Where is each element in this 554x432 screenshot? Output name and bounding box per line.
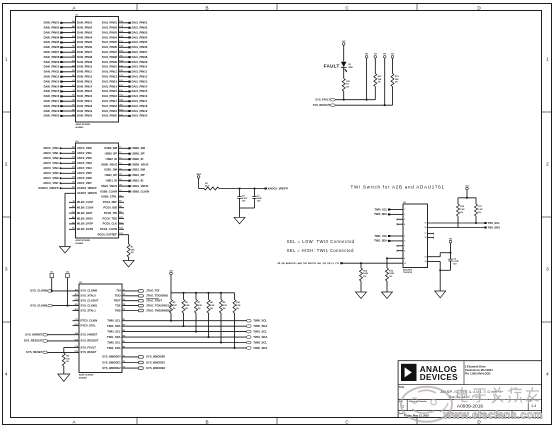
wire TWI2_SDA (U3 pin R6) bbox=[107, 346, 267, 350]
svg-text:USB1_DM: USB1_DM bbox=[132, 168, 146, 172]
ground U2 analog bbox=[60, 247, 71, 254]
svg-text:2: 2 bbox=[5, 162, 8, 167]
svg-text:DAI0_PIN01: DAI0_PIN01 bbox=[44, 21, 60, 25]
power flag 3V3 U5 VDD bbox=[449, 238, 452, 259]
svg-text:R13: R13 bbox=[119, 233, 122, 235]
svg-text:5%: 5% bbox=[131, 252, 134, 254]
svg-text:SYS_RESET: SYS_RESET bbox=[26, 350, 43, 354]
svg-text:DAI1_PIN14: DAI1_PIN14 bbox=[102, 84, 118, 88]
power flag TP header B bbox=[383, 54, 386, 59]
svg-text:SYS_BMODE1: SYS_BMODE1 bbox=[146, 360, 166, 364]
IC U1 ADSP-SC589 DAI0/DAI1 pins bbox=[76, 17, 119, 123]
svg-text:2.2K: 2.2K bbox=[223, 305, 228, 307]
resistor R9 2.2K pull-up bbox=[220, 293, 228, 313]
svg-text:5%: 5% bbox=[198, 308, 201, 310]
wire DAI1_PIN09 (U1 pin K14) bbox=[102, 59, 148, 63]
svg-text:1: 1 bbox=[5, 57, 8, 62]
svg-text:PCG0_TDO: PCG0_TDO bbox=[103, 216, 118, 220]
svg-text:XADC0_VREFP: XADC0_VREFP bbox=[77, 186, 97, 190]
wire PCG0_CLK (U2 pin R11) bbox=[103, 222, 124, 226]
svg-text:D15: D15 bbox=[119, 80, 122, 82]
svg-text:JTAG_TMS/SWDIO: JTAG_TMS/SWDIO bbox=[146, 308, 172, 312]
svg-text:DAI0_PIN17: DAI0_PIN17 bbox=[44, 99, 60, 103]
wire PCG0_IOB (U2 pin R8) bbox=[103, 206, 124, 210]
power flag 3V3 TWI pull-ups bbox=[465, 185, 468, 198]
svg-text:TDI: TDI bbox=[116, 289, 121, 293]
svg-text:TWI1_SCL: TWI1_SCL bbox=[253, 329, 267, 333]
svg-text:TMS: TMS bbox=[115, 308, 121, 312]
svg-text:5%: 5% bbox=[346, 86, 349, 88]
svg-text:N5: N5 bbox=[72, 70, 74, 72]
ground R15 bbox=[382, 292, 393, 299]
svg-text:SYS_CLKIN0: SYS_CLKIN0 bbox=[81, 289, 98, 293]
svg-text:USB0_CLKIN: USB0_CLKIN bbox=[132, 189, 150, 193]
svg-text:MLB0_DATN: MLB0_DATN bbox=[77, 227, 93, 231]
wire TWI_SDA output bbox=[425, 225, 501, 229]
svg-text:1: 1 bbox=[404, 209, 405, 211]
resistor R11 1K LED bbox=[342, 79, 351, 92]
wire MLB0_CLKN (U2 pin K6) bbox=[69, 206, 93, 210]
svg-text:FAULT: FAULT bbox=[324, 64, 340, 69]
svg-text:MLB0_CLKP: MLB0_CLKP bbox=[77, 200, 93, 204]
wire RTC0_CLKIN (U3 pin C13) bbox=[73, 319, 98, 323]
svg-text:TWI1_SCL: TWI1_SCL bbox=[107, 329, 121, 333]
svg-text:DAI0_PIN05: DAI0_PIN05 bbox=[44, 40, 60, 44]
svg-text:5%: 5% bbox=[66, 361, 69, 363]
svg-text:JTAG_TDO/SWO: JTAG_TDO/SWO bbox=[146, 294, 169, 298]
svg-text:U1: U1 bbox=[119, 168, 121, 170]
svg-text:TWI1_SDA: TWI1_SDA bbox=[107, 335, 121, 339]
svg-text:TCK: TCK bbox=[115, 303, 121, 307]
LED D1 FAULT bbox=[341, 62, 353, 73]
svg-text:5%: 5% bbox=[395, 82, 398, 84]
svg-text:DAI1_PIN14: DAI1_PIN14 bbox=[132, 84, 148, 88]
wire TWI1_SDA to U5 (pin 6) bbox=[374, 239, 405, 243]
wire TWI_SCL output bbox=[425, 221, 501, 225]
svg-text:DAI0_PIN07: DAI0_PIN07 bbox=[44, 50, 60, 54]
svg-text:5%: 5% bbox=[223, 308, 226, 310]
wire R8 to TWI1_SDA bbox=[208, 313, 210, 337]
wire TWI1_SCL to U5 (pin 5) bbox=[374, 234, 405, 238]
wire SYS_CLKIN1 (U3 pin A12) bbox=[30, 303, 97, 307]
wire DAI1_PIN16 (U1 pin G15) bbox=[102, 94, 148, 98]
svg-text:B15: B15 bbox=[119, 70, 122, 72]
wire R11 to SYS_FAULT line bbox=[343, 91, 345, 101]
svg-text:T1: T1 bbox=[123, 355, 125, 357]
svg-text:TRST: TRST bbox=[114, 299, 121, 303]
resistor R17 2.2K TWI_SDA pull-up bbox=[475, 198, 484, 223]
svg-text:DAI1_PIN03: DAI1_PIN03 bbox=[102, 30, 118, 34]
wire DAI1_PIN06 (U1 pin G14) bbox=[102, 45, 148, 49]
resistor R4 10K pulldown SYS_FAULT bbox=[62, 353, 70, 366]
U1 part name label bbox=[76, 123, 90, 129]
wire DAI1_PIN01 (U1 pin B14) bbox=[102, 20, 148, 24]
wire DAI0_PIN12 (U1 pin M5) bbox=[44, 75, 93, 79]
svg-text:DAI1_PIN01: DAI1_PIN01 bbox=[132, 21, 148, 25]
svg-text:T3: T3 bbox=[119, 158, 121, 160]
zone letters top bbox=[72, 5, 481, 10]
Analog Devices logo bbox=[401, 364, 417, 381]
svg-text:J6: J6 bbox=[72, 201, 74, 203]
svg-text:USB1_VBUS: USB1_VBUS bbox=[132, 184, 149, 188]
wire DAI1_PIN18 (U1 pin J15) bbox=[102, 104, 148, 108]
title text bbox=[440, 389, 502, 399]
wire TWI1_SDA (U3 pin R4) bbox=[107, 334, 267, 338]
wire U5 no-connect right 2 bbox=[425, 237, 434, 240]
resistor R14 100K pulldown bbox=[360, 263, 369, 292]
svg-text:DAI1_PIN07: DAI1_PIN07 bbox=[102, 50, 118, 54]
wire DAI0_PIN06 (U1 pin H4) bbox=[44, 45, 93, 49]
svg-text:DAI0_PIN08: DAI0_PIN08 bbox=[77, 55, 93, 59]
wire DAI0_PIN14 (U1 pin K5) bbox=[44, 84, 93, 88]
svg-text:DAI1_PIN12: DAI1_PIN12 bbox=[132, 75, 148, 79]
svg-text:DAI0_PIN20: DAI0_PIN20 bbox=[44, 114, 60, 118]
svg-text:SYS_CLKIN0: SYS_CLKIN0 bbox=[30, 289, 48, 293]
svg-text:2.2K: 2.2K bbox=[210, 305, 215, 307]
svg-text:SYS_BMODE2: SYS_BMODE2 bbox=[102, 366, 121, 370]
wire MLB0_CLKP (U2 pin J6) bbox=[69, 200, 93, 204]
svg-text:H15: H15 bbox=[119, 100, 122, 102]
wire R6 to TWI0_SDA bbox=[183, 313, 185, 326]
wire USB1_ID (U2 pin U3) bbox=[106, 179, 144, 183]
wire pull-up rail bbox=[171, 292, 235, 294]
svg-text:P5: P5 bbox=[123, 309, 125, 311]
wire TWI1_SCL (U3 pin R3) bbox=[107, 329, 267, 333]
svg-text:ADC0_VIN4: ADC0_VIN4 bbox=[43, 166, 59, 170]
svg-text:DAI0_PIN13: DAI0_PIN13 bbox=[44, 79, 60, 83]
component Y1 load cap bbox=[50, 272, 54, 278]
wire R9 to TWI2_SCL bbox=[220, 313, 222, 343]
svg-text:DAI1_PIN08: DAI1_PIN08 bbox=[132, 55, 148, 59]
svg-text:BGA400: BGA400 bbox=[76, 242, 85, 245]
wire USB1_DP (U2 pin U2) bbox=[105, 173, 145, 177]
svg-text:5%: 5% bbox=[389, 276, 392, 278]
svg-text:PCG0_CLK: PCG0_CLK bbox=[103, 222, 117, 226]
size cell bbox=[399, 401, 405, 409]
U5 part name label bbox=[403, 268, 413, 274]
svg-text:DAI0_PIN18: DAI0_PIN18 bbox=[77, 104, 93, 108]
svg-text:U2: U2 bbox=[119, 174, 121, 176]
svg-text:5%: 5% bbox=[236, 308, 239, 310]
svg-text:USB0_VBUS: USB0_VBUS bbox=[101, 162, 117, 166]
svg-text:ADSP-SC589W: ADSP-SC589W bbox=[79, 374, 93, 377]
svg-text:R9: R9 bbox=[119, 212, 121, 214]
svg-text:3: 3 bbox=[5, 267, 8, 272]
resistor R13 10K bbox=[391, 58, 399, 105]
svg-text:B: B bbox=[205, 420, 208, 425]
svg-text:H5: H5 bbox=[72, 95, 74, 97]
svg-text:5%: 5% bbox=[478, 212, 481, 214]
svg-text:R8: R8 bbox=[119, 206, 121, 208]
svg-text:TWI1_SCL: TWI1_SCL bbox=[374, 234, 387, 238]
svg-text:J15: J15 bbox=[119, 105, 122, 107]
wire USB0_ID (U2 pin T3) bbox=[106, 157, 144, 161]
svg-text:14: 14 bbox=[425, 260, 427, 263]
wire USB0_CTRL (U2 pin U5) bbox=[101, 195, 124, 199]
svg-text:DAI1_PIN04: DAI1_PIN04 bbox=[102, 35, 118, 39]
svg-text:USB1_DM: USB1_DM bbox=[104, 168, 118, 172]
wire MLB0_SIGN (U2 pin M6) bbox=[69, 216, 92, 220]
wire DAI1_PIN20 (U1 pin L15) bbox=[102, 114, 148, 118]
wire U5 NC4 no-connect (pin 8) bbox=[397, 250, 405, 253]
svg-text:ADC0_VIN1: ADC0_VIN1 bbox=[43, 151, 59, 155]
wire SYS_FAULT (U3 pin C14) bbox=[64, 345, 96, 353]
svg-text:USB0_VBUS: USB0_VBUS bbox=[132, 162, 149, 166]
wire ADC0_VIN1 (U2 pin B4) bbox=[43, 151, 92, 155]
svg-text:TWI0_SDA: TWI0_SDA bbox=[253, 324, 267, 328]
svg-text:SEL = LOW: TWI0 Connected: SEL = LOW: TWI0 Connected bbox=[287, 239, 355, 244]
svg-text:C13: C13 bbox=[75, 319, 78, 321]
wire DAI1_PIN14 (U1 pin E15) bbox=[102, 84, 148, 88]
wire JTAG_TDO/SWO (U3 pin P2) bbox=[115, 294, 169, 298]
wire DAI0_PIN04 (U1 pin K4) bbox=[44, 35, 93, 39]
wire D1 to R10 bbox=[343, 67, 345, 78]
svg-text:DAI0_PIN02: DAI0_PIN02 bbox=[77, 26, 93, 30]
zone letters bottom bbox=[72, 420, 481, 425]
wire DAI0_PIN05 (U1 pin J4) bbox=[44, 40, 93, 44]
svg-text:JTAG_TRST: JTAG_TRST bbox=[146, 299, 162, 303]
wire TP2 to SYS_FAULT line bbox=[366, 58, 368, 100]
wire DAI1_PIN07 (U1 pin H14) bbox=[102, 50, 148, 54]
svg-text:DAI1_PIN11: DAI1_PIN11 bbox=[102, 70, 117, 74]
svg-text:B11: B11 bbox=[75, 294, 78, 296]
svg-text:PCG0_TDI: PCG0_TDI bbox=[104, 211, 117, 215]
svg-text:ADC0_VIN7: ADC0_VIN7 bbox=[43, 181, 59, 185]
IC U2 ADSP-SC589 ADC/USB pins bbox=[76, 143, 119, 238]
svg-text:DAI0_PIN15: DAI0_PIN15 bbox=[77, 89, 93, 93]
svg-text:5%: 5% bbox=[185, 308, 188, 310]
svg-text:15: 15 bbox=[425, 256, 427, 258]
wire SYS_BMODE2 (U3 pin T3) bbox=[102, 366, 165, 370]
wire SYS_RESOUT (U3 pin B14) bbox=[24, 338, 99, 342]
svg-text:DAI0_PIN13: DAI0_PIN13 bbox=[77, 79, 93, 83]
svg-text:D5: D5 bbox=[72, 114, 74, 116]
resistor R16 2.2K TWI_SCL pull-up bbox=[457, 198, 466, 228]
wire DAI1_PIN19 (U1 pin K15) bbox=[102, 109, 148, 113]
svg-text:ADC0_VIN6: ADC0_VIN6 bbox=[77, 176, 92, 180]
power flag 3V3 pull-up rail bbox=[169, 270, 172, 293]
zone numbers right bbox=[546, 57, 549, 377]
wire DAI0_PIN09 (U1 pin E4) bbox=[44, 59, 93, 63]
wire DAI0_PIN18 (U1 pin F5) bbox=[44, 104, 93, 108]
wire Y2 to SYS_CLKIN1 bbox=[67, 278, 69, 306]
wire DAI0_PIN08 (U1 pin F4) bbox=[44, 55, 93, 59]
wire MLB0_DATP (U2 pin N6) bbox=[69, 222, 93, 226]
svg-text:PCG0_CLKIN: PCG0_CLKIN bbox=[100, 227, 117, 231]
svg-text:TDO: TDO bbox=[115, 294, 121, 298]
svg-text:18: 18 bbox=[425, 227, 427, 229]
svg-text:SYS_XTAL1: SYS_XTAL1 bbox=[81, 308, 97, 312]
svg-text:DAI0_PIN10: DAI0_PIN10 bbox=[44, 65, 60, 69]
wire USB0_DP (U2 pin T2) bbox=[105, 152, 145, 156]
svg-text:MLB0_CLKN: MLB0_CLKN bbox=[77, 206, 93, 210]
zone numbers left bbox=[5, 57, 8, 377]
rev cell bbox=[529, 401, 536, 408]
svg-text:SYS_HWRST: SYS_HWRST bbox=[81, 333, 98, 337]
svg-text:L6: L6 bbox=[72, 212, 74, 214]
wire SYS_RESET (U3 pin D14) bbox=[26, 350, 97, 354]
svg-text:7: 7 bbox=[404, 245, 405, 247]
wire U5 no-connect right 1 bbox=[425, 233, 434, 236]
svg-text:2.2K: 2.2K bbox=[478, 209, 483, 211]
svg-text:DAI1_PIN07: DAI1_PIN07 bbox=[132, 50, 148, 54]
svg-text:SYS_BMODE0: SYS_BMODE0 bbox=[146, 355, 166, 359]
svg-text:DAI0_PIN15: DAI0_PIN15 bbox=[44, 89, 60, 93]
wire DAI1_PIN04 (U1 pin E14) bbox=[102, 35, 148, 39]
wire MLB0_DATN (U2 pin P6) bbox=[69, 227, 93, 231]
svg-text:ADC0_VIN7: ADC0_VIN7 bbox=[77, 181, 92, 185]
svg-text:SYS_BMODE1: SYS_BMODE1 bbox=[102, 360, 121, 364]
svg-text:ADC0_VIN1: ADC0_VIN1 bbox=[77, 151, 92, 155]
wire pull-up pair rail bbox=[458, 197, 476, 199]
svg-text:TWI0_SCL: TWI0_SCL bbox=[107, 319, 121, 323]
svg-text:DAI0_PIN16: DAI0_PIN16 bbox=[44, 94, 60, 98]
svg-text:R12: R12 bbox=[119, 228, 122, 230]
svg-text:MLB0_SIGP: MLB0_SIGP bbox=[77, 211, 92, 215]
wire U5 NC3 no-connect (pin 7) bbox=[397, 245, 405, 248]
svg-text:TWI Switch for A2B and ADAU176: TWI Switch for A2B and ADAU1761 bbox=[351, 185, 445, 190]
svg-text:SYS_RESOUT: SYS_RESOUT bbox=[24, 339, 43, 343]
wire DAI0_PIN13 (U1 pin L5) bbox=[44, 79, 93, 83]
svg-text:K6: K6 bbox=[72, 206, 74, 208]
svg-text:DAI0_PIN11: DAI0_PIN11 bbox=[77, 70, 92, 74]
power flag TP header A bbox=[365, 54, 368, 59]
wire PCG0_CLKIN (U2 pin R12) bbox=[100, 227, 124, 231]
svg-text:P1: P1 bbox=[123, 289, 125, 291]
svg-text:T3: T3 bbox=[123, 367, 125, 369]
svg-text:4: 4 bbox=[546, 372, 549, 377]
svg-text:DAI0_PIN20: DAI0_PIN20 bbox=[77, 114, 93, 118]
resistor R1 10K bbox=[127, 244, 135, 257]
svg-text:ADC0_VIN5: ADC0_VIN5 bbox=[77, 171, 92, 175]
svg-text:B: B bbox=[205, 5, 208, 10]
svg-text:T2: T2 bbox=[119, 152, 121, 154]
svg-text:10K: 10K bbox=[378, 79, 382, 81]
power flag 3V3 B bbox=[391, 54, 394, 59]
svg-text:DAI0_PIN12: DAI0_PIN12 bbox=[77, 75, 93, 79]
svg-text:DAI1_PIN02: DAI1_PIN02 bbox=[102, 26, 118, 30]
wire SYS_CLKIN0 (U3 pin A11) bbox=[30, 288, 97, 292]
svg-text:RTC0_XTAL: RTC0_XTAL bbox=[81, 323, 97, 327]
wire TWI0_SDA (U3 pin R2) bbox=[107, 324, 267, 328]
wire XADC0_VREFP (U2 pin A5) bbox=[38, 186, 97, 190]
svg-text:TWI0_SCL: TWI0_SCL bbox=[374, 207, 387, 211]
wire DAI1_PIN15 (U1 pin F15) bbox=[102, 89, 148, 93]
svg-text:TWI0_SDA: TWI0_SDA bbox=[107, 324, 121, 328]
svg-text:ADC0_VIN0: ADC0_VIN0 bbox=[77, 146, 92, 150]
svg-text:DAI1_PIN16: DAI1_PIN16 bbox=[132, 94, 148, 98]
svg-text:PH: 1.800.ANALOGD: PH: 1.800.ANALOGD bbox=[465, 372, 491, 376]
svg-text:DAI1_PIN06: DAI1_PIN06 bbox=[102, 45, 118, 49]
wire DAI1_PIN02 (U1 pin C14) bbox=[102, 25, 148, 29]
svg-text:USB0_DP: USB0_DP bbox=[132, 152, 145, 156]
wire TWI0_SCL to U5 (pin 1) bbox=[374, 207, 405, 211]
svg-text:SYS_RESOUT: SYS_RESOUT bbox=[81, 339, 99, 343]
svg-text:MLB0_SIGN: MLB0_SIGN bbox=[77, 216, 92, 220]
wire DAI0_PIN19 (U1 pin E5) bbox=[44, 109, 93, 113]
svg-text:TWI1_SDA: TWI1_SDA bbox=[374, 239, 387, 243]
wire SYS_HWRST (U3 pin A14) bbox=[25, 332, 97, 336]
svg-text:DAI1_PIN11: DAI1_PIN11 bbox=[132, 70, 148, 74]
svg-text:T1: T1 bbox=[119, 147, 121, 149]
wire DAI0_PIN10 (U1 pin D4) bbox=[44, 64, 93, 68]
svg-text:5%: 5% bbox=[460, 212, 463, 214]
svg-text:DAI1_PIN10: DAI1_PIN10 bbox=[132, 65, 148, 69]
svg-text:TWI1_SDA: TWI1_SDA bbox=[253, 335, 267, 339]
svg-text:DAI1_PIN03: DAI1_PIN03 bbox=[132, 30, 148, 34]
wire R10 to TWI2_SDA bbox=[234, 313, 236, 348]
svg-text:TWI0_SDA: TWI0_SDA bbox=[374, 212, 387, 216]
svg-text:5: 5 bbox=[404, 236, 405, 238]
wire SYS_XTAL1 (U3 pin B12) bbox=[73, 308, 97, 312]
svg-text:USB1_ID: USB1_ID bbox=[132, 179, 144, 183]
wire ADC0_VIN6 (U2 pin G4) bbox=[43, 176, 92, 180]
resistor R7 2.2K pull-up bbox=[195, 293, 203, 313]
svg-text:DAI0_PIN18: DAI0_PIN18 bbox=[44, 104, 60, 108]
wire PCG0_REF (U2 pin R7) bbox=[103, 200, 124, 204]
wire DAI1_PIN08 (U1 pin J14) bbox=[102, 55, 148, 59]
wire TWI2_SCL (U3 pin R5) bbox=[107, 340, 267, 344]
wire SYS_BMODE1 (U3 pin T2) bbox=[102, 360, 165, 364]
U2 part name label bbox=[76, 239, 90, 245]
date row bbox=[399, 412, 506, 418]
wire USB1_VBUS (U2 pin U4) bbox=[101, 184, 149, 188]
svg-text:SYS_FAULT: SYS_FAULT bbox=[81, 345, 97, 349]
svg-text:DEVICES: DEVICES bbox=[420, 373, 458, 382]
svg-text:SYS_CLKIN1: SYS_CLKIN1 bbox=[81, 303, 98, 307]
svg-text:ADC0_VIN0: ADC0_VIN0 bbox=[43, 146, 59, 150]
svg-text:K15: K15 bbox=[119, 109, 122, 111]
svg-text:1: 1 bbox=[546, 57, 549, 62]
svg-text:DAI0_PIN14: DAI0_PIN14 bbox=[77, 84, 93, 88]
wire U2 VREFN down to ground bbox=[65, 193, 76, 246]
wire DAI0_PIN03 (U1 pin L4) bbox=[44, 30, 93, 34]
svg-text:DAI0_PIN10: DAI0_PIN10 bbox=[77, 65, 93, 69]
svg-text:10: 10 bbox=[404, 263, 406, 265]
svg-text:DAI1_PIN19: DAI1_PIN19 bbox=[132, 109, 148, 113]
wire JTAG_TDI (U3 pin P1) bbox=[116, 289, 159, 293]
svg-text:DAI0_PIN01: DAI0_PIN01 bbox=[77, 21, 93, 25]
svg-text:BGA400: BGA400 bbox=[79, 376, 88, 379]
wire DAI0_PIN02 (U1 pin M4) bbox=[44, 25, 93, 29]
svg-text:17: 17 bbox=[425, 233, 427, 235]
svg-text:10K: 10K bbox=[395, 79, 399, 81]
svg-text:SYS_RESOUT: SYS_RESOUT bbox=[313, 103, 331, 107]
wire USB0_CLKIN (U2 pin T5) bbox=[100, 189, 149, 193]
svg-text:TWI2_SDA: TWI2_SDA bbox=[253, 346, 267, 350]
svg-text:DAI0_PIN02: DAI0_PIN02 bbox=[44, 26, 60, 30]
wire DAI0_PIN01 (U1 pin N4) bbox=[44, 20, 93, 24]
wire TP3 to SYS_RESOUT line bbox=[384, 58, 386, 106]
wire PCG0_TDI (U2 pin R9) bbox=[104, 211, 124, 215]
svg-text:R7: R7 bbox=[119, 201, 121, 203]
svg-text:M5: M5 bbox=[72, 75, 75, 77]
svg-text:4: 4 bbox=[404, 223, 405, 226]
wire ADC0_VIN0 (U2 pin A4) bbox=[43, 146, 92, 150]
svg-text:ADC0_VIN2: ADC0_VIN2 bbox=[43, 156, 59, 160]
wire SYS_XTAL0 (U3 pin B11) bbox=[73, 294, 97, 298]
resistor R5 2.2K pull-up bbox=[170, 293, 178, 313]
svg-text:ADG3304: ADG3304 bbox=[403, 268, 413, 271]
wire JTAG_TRST (U3 pin P3) bbox=[114, 299, 163, 303]
svg-text:DAI1_PIN02: DAI1_PIN02 bbox=[132, 26, 148, 30]
svg-text:DAI1_PIN17: DAI1_PIN17 bbox=[132, 99, 148, 103]
wire R4 to ground bbox=[63, 366, 65, 374]
power flag 3V3 LED bbox=[342, 41, 345, 62]
svg-text:DAI1_PIN05: DAI1_PIN05 bbox=[132, 40, 148, 44]
svg-text:USB0_CLKIN: USB0_CLKIN bbox=[100, 189, 117, 193]
svg-text:100K: 100K bbox=[389, 273, 394, 275]
